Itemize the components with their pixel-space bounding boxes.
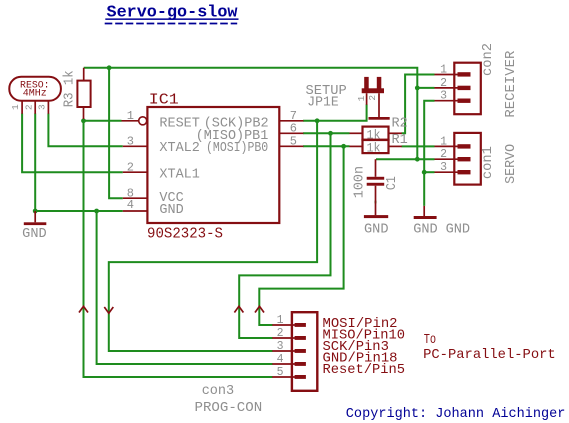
- label con3 pin functions: [323, 316, 406, 378]
- svg-text:90S2323-S: 90S2323-S: [147, 225, 223, 242]
- ground GND under C1: [364, 215, 389, 238]
- wire con1 pin3 stub: [424, 171, 434, 173]
- pin IC1 RESET pin1 with bubble: [122, 109, 147, 125]
- wire GND net down to con3 pin4: [97, 211, 273, 364]
- node con2 pin2 junction: [415, 86, 420, 91]
- pin IC1 PB1 pin6: [279, 121, 303, 135]
- svg-text:2: 2: [277, 327, 284, 340]
- svg-text:1: 1: [440, 135, 447, 148]
- wire RESO pin3 to XTAL2: [48, 114, 122, 147]
- svg-text:5: 5: [290, 134, 297, 148]
- svg-text:SERVO: SERVO: [504, 144, 519, 184]
- svg-text:GND: GND: [159, 203, 183, 218]
- node SCK junction: [315, 118, 320, 123]
- pin IC1 PB0 pin5: [279, 134, 303, 148]
- wire RESO pin1 to XTAL1: [22, 114, 123, 173]
- wire MISO net down-around to con3 pin2: [239, 133, 330, 338]
- svg-text:100n: 100n: [353, 166, 368, 198]
- wire GND net horizontal to pin4: [35, 210, 123, 212]
- node VCC-servo junction: [415, 157, 420, 162]
- svg-text:1: 1: [356, 95, 367, 101]
- jumper JP1E SETUP: [306, 77, 390, 120]
- wire C1 top to con1 pin2: [376, 158, 435, 160]
- node RESET junction: [81, 118, 86, 123]
- pin IC1 GND pin4: [123, 198, 148, 212]
- svg-text:GND: GND: [22, 227, 47, 242]
- svg-text:con3: con3: [202, 384, 235, 399]
- svg-text:3: 3: [440, 90, 447, 103]
- svg-text:3: 3: [440, 161, 447, 174]
- wire MOSI net down-around to con3 pin1: [259, 146, 343, 325]
- svg-text:(MOSI)PB0: (MOSI)PB0: [206, 141, 268, 156]
- svg-text:IC1: IC1: [149, 92, 179, 109]
- svg-text:GND: GND: [446, 223, 471, 238]
- svg-text:JP1E: JP1E: [307, 95, 338, 110]
- svg-text:Copyright: Johann Aichinger: Copyright: Johann Aichinger: [346, 406, 566, 422]
- svg-text:RESET: RESET: [159, 116, 200, 131]
- svg-text:R3 1k: R3 1k: [63, 70, 78, 107]
- svg-text:2: 2: [23, 104, 34, 110]
- wire RESET net down to con3 pin5: [84, 121, 273, 377]
- pin IC1 VCC pin8: [123, 186, 148, 200]
- ground GND left: [22, 211, 47, 242]
- wire R2 to con2 pin1: [402, 75, 435, 134]
- node MISO junction: [328, 131, 333, 136]
- node MOSI junction: [341, 144, 346, 149]
- resonator Q1 RESO 4MHz: [9, 77, 61, 114]
- wire RESO pin2 to GND: [34, 114, 36, 212]
- svg-text:To: To: [424, 332, 436, 348]
- wire MISO net pin6 to R2: [303, 132, 350, 134]
- svg-text:1: 1: [277, 314, 284, 327]
- svg-text:GND: GND: [364, 223, 389, 238]
- svg-text:4MHz: 4MHz: [23, 88, 47, 99]
- svg-text:2: 2: [127, 160, 134, 174]
- svg-text:C1: C1: [385, 176, 400, 190]
- svg-text:XTAL2: XTAL2: [159, 141, 200, 156]
- svg-text:4: 4: [127, 198, 134, 212]
- connector con1: [435, 133, 519, 185]
- svg-text:con2: con2: [481, 43, 496, 76]
- capacitor C1 100n: [353, 159, 400, 215]
- svg-text:1k: 1k: [367, 141, 381, 156]
- svg-text:3: 3: [36, 104, 47, 110]
- svg-text:5: 5: [277, 366, 284, 379]
- pin IC1 XTAL1 pin2: [123, 160, 148, 174]
- svg-text:Reset/Pin5: Reset/Pin5: [323, 362, 406, 378]
- svg-text:GND: GND: [413, 223, 438, 238]
- node GND junction mid: [94, 209, 99, 214]
- wire con2 pin3 to GND: [424, 101, 434, 206]
- wire MOSI net pin5 to R1: [303, 145, 350, 147]
- svg-text:2: 2: [367, 95, 378, 101]
- node con1 pin3 junction: [422, 170, 427, 175]
- svg-text:R1: R1: [392, 133, 408, 148]
- svg-text:1: 1: [127, 109, 134, 123]
- connector con3: [195, 312, 318, 416]
- arrow up on MISO wire: [234, 306, 243, 312]
- svg-text:2: 2: [440, 77, 447, 90]
- wire VCC top rail: [84, 68, 418, 159]
- title Servo-go-slow: [105, 4, 239, 24]
- resistor R3: [63, 68, 91, 119]
- arrow up on MOSI wire: [255, 306, 264, 312]
- wire C1 lower green segment: [375, 201, 377, 204]
- op-amp IC1 90S2323-S box: [147, 92, 279, 243]
- node GND junction left: [33, 209, 38, 214]
- svg-text:R2: R2: [392, 117, 408, 132]
- pin IC1 XTAL2 pin3: [123, 134, 148, 148]
- resistor R1: [350, 133, 408, 156]
- wire VCC branch to pin8: [109, 68, 123, 198]
- svg-text:con1: con1: [481, 146, 496, 179]
- svg-text:3: 3: [277, 340, 284, 353]
- svg-text:4: 4: [277, 353, 284, 366]
- svg-text:RECEIVER: RECEIVER: [504, 51, 519, 118]
- svg-text:2: 2: [440, 148, 447, 161]
- svg-text:PC-Parallel-Port: PC-Parallel-Port: [423, 347, 556, 363]
- connector con2: [435, 43, 519, 118]
- svg-text:PROG-CON: PROG-CON: [195, 401, 263, 416]
- svg-text:XTAL1: XTAL1: [159, 167, 200, 182]
- wire RESET net horizontal: [84, 120, 122, 122]
- wire R1 to con1 pin1: [402, 145, 435, 147]
- svg-text:6: 6: [290, 121, 297, 135]
- svg-text:1: 1: [10, 104, 21, 110]
- node VCC junction: [107, 65, 112, 70]
- ground GND under con1: [413, 206, 438, 238]
- wire SCK net down-around to con3 pin3: [109, 121, 317, 351]
- pin IC1 PB2 pin7: [279, 109, 303, 123]
- wire SCK net pin7 to jumper: [303, 104, 367, 120]
- resistor R2: [350, 117, 408, 143]
- wire con2 pin2 stub: [417, 87, 434, 89]
- label To PC-Parallel-Port: [423, 332, 556, 363]
- svg-text:3: 3: [127, 134, 134, 148]
- arrow down on SCK wire: [104, 307, 113, 313]
- arrow up on RESET wire: [79, 306, 88, 312]
- label IC1 pin names: [159, 116, 268, 218]
- svg-text:1: 1: [440, 64, 447, 77]
